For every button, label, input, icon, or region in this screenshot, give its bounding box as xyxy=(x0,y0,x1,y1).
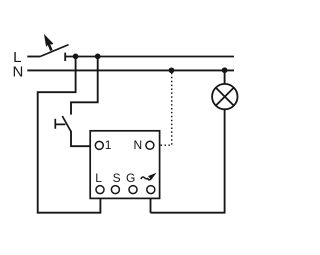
svg-text:G: G xyxy=(126,171,135,185)
svg-text:N: N xyxy=(13,63,24,80)
svg-text:L: L xyxy=(95,171,102,185)
svg-text:1: 1 xyxy=(105,138,112,152)
svg-text:S: S xyxy=(113,171,121,185)
svg-text:N: N xyxy=(134,138,143,152)
